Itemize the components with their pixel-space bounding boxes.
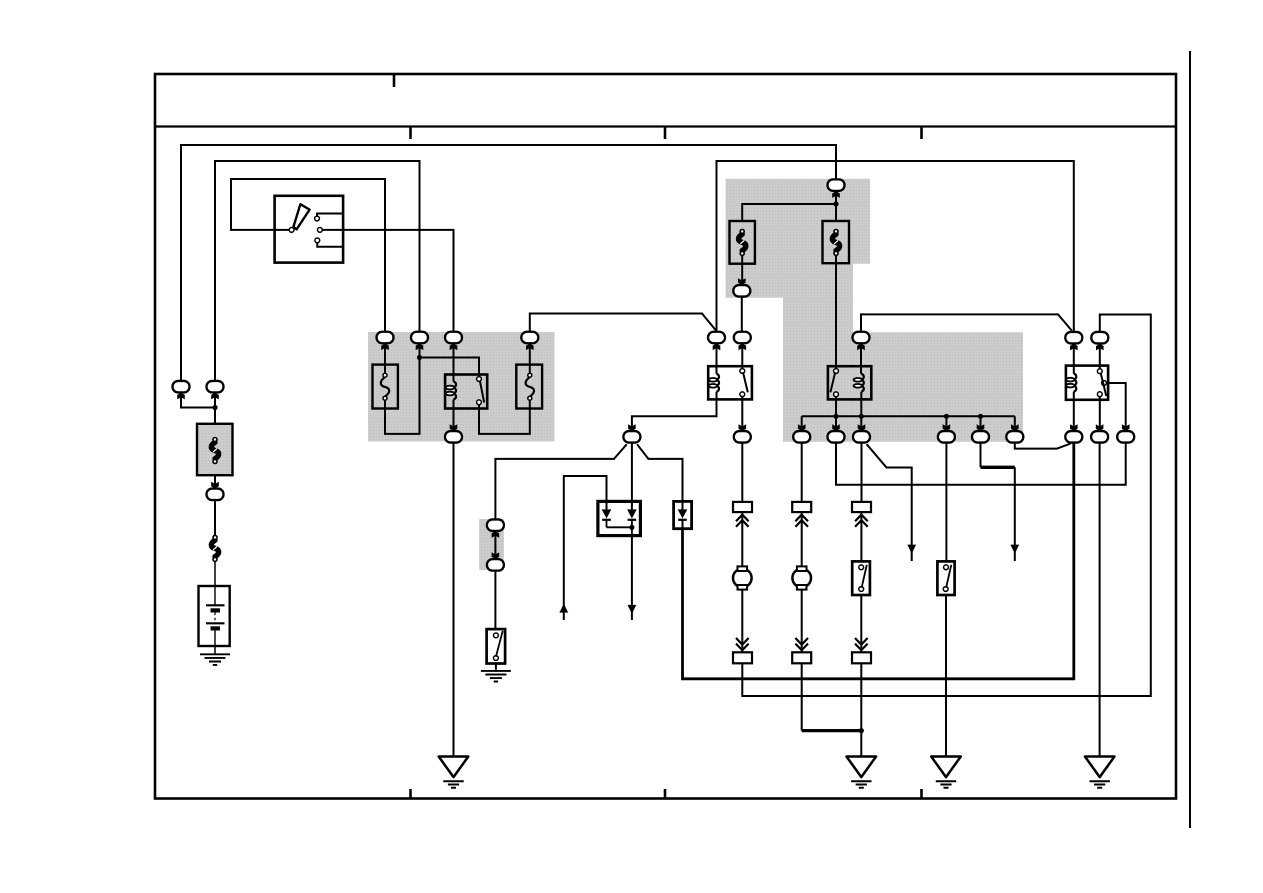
wire thick RH turn circuit loop: [683, 443, 1074, 679]
connector oval battery feed R: [207, 381, 224, 393]
ground triangle relay block: [439, 757, 469, 788]
diode 2 lead: [631, 501, 633, 509]
connector oval hazard out NO: [1091, 431, 1108, 443]
battery box: [199, 586, 230, 646]
connector oval LH lamp: [734, 431, 751, 443]
connector oval RH lamp: [793, 431, 810, 443]
tick bottom 3: [920, 789, 923, 799]
arrow up into hazard relay contact oval: [1096, 344, 1104, 351]
diode 1 lead: [606, 501, 608, 509]
relay contact top (left block): [477, 377, 482, 382]
wire oval to flasher contact: [741, 343, 743, 371]
diode 3 out lead: [682, 520, 684, 529]
connector rect RH bottom: [792, 652, 811, 663]
wire page arrow B drop: [1014, 467, 1016, 561]
wire flasher contact out: [741, 394, 743, 431]
wire side switch to lower connector: [860, 595, 862, 652]
dimmer switch blade: [496, 631, 503, 657]
ground battery: [200, 654, 230, 665]
shade: battery fusible link block: [197, 424, 233, 475]
battery top lead: [214, 586, 216, 605]
dimmer switch contact top: [494, 633, 499, 638]
wire bus right drop: [1014, 416, 1016, 431]
wire bus drop 980: [980, 416, 982, 431]
connector oval flasher L: [734, 332, 751, 344]
diode 3 cathode bar: [678, 519, 687, 521]
side switch blade: [862, 565, 867, 588]
wire feed oval to fusible links: [742, 191, 836, 222]
arrow up into battery oval L: [177, 393, 185, 400]
wire thick branch 980 to page arrow B: [981, 466, 1015, 469]
diode bus junction: [629, 525, 634, 530]
battery plate short 2: [211, 626, 221, 630]
wire oval to side connector: [861, 443, 863, 502]
wire ignition switch contact to relay block: [322, 230, 453, 332]
chevrons down side: [855, 638, 868, 650]
chevrons down LH: [736, 638, 749, 650]
arrow up into flasher B oval: [713, 343, 721, 350]
ignition switch contact 3: [315, 238, 320, 243]
connector oval bus 836: [828, 431, 845, 443]
hazard switch relay box: [828, 366, 871, 399]
rear switch blade: [946, 565, 951, 588]
diode 2 out lead: [631, 520, 633, 536]
connector oval fuse1: [377, 332, 394, 344]
wire switch contact stub bottom: [317, 240, 342, 246]
connector oval pair bottom: [487, 559, 504, 571]
battery bottom lead: [214, 628, 216, 646]
relay contact bottom (left block): [477, 400, 482, 405]
diode box (2 diodes): [598, 501, 641, 535]
rear switch contact top: [944, 565, 949, 570]
connector oval bus 946: [938, 431, 955, 443]
dimmer switch contact bottom: [494, 656, 499, 661]
connector oval bus 1014: [1006, 431, 1023, 443]
ground triangle side: [847, 757, 877, 788]
battery center dashed: [214, 613, 216, 622]
page arrow up LH diode feed: [559, 604, 568, 613]
diode 3: [678, 509, 688, 518]
connector oval pair top: [487, 519, 504, 531]
wire oval to relay coil: [453, 343, 455, 381]
ground triangle hazard: [1085, 757, 1115, 788]
page arrow down branch B: [1010, 545, 1019, 554]
connector oval below fusible link: [207, 489, 224, 501]
wire hazard relay coil out: [1073, 392, 1075, 431]
wire fuse1 bottom loop: [385, 358, 420, 434]
fusible link element left: [739, 229, 746, 255]
wire fusible link to oval: [214, 475, 216, 489]
connector rect side top: [852, 502, 871, 512]
connector oval hazard out coil: [1065, 431, 1082, 443]
arrow up into battery oval R: [211, 393, 219, 400]
side switch contact bottom: [859, 587, 864, 592]
wire rear switch to ground: [945, 595, 947, 757]
wire oval to hazard relay contact: [1099, 344, 1101, 372]
page arrow down diode common: [628, 605, 637, 614]
wire battery ovals join: [181, 392, 215, 424]
rear switch contact bottom: [943, 587, 948, 592]
wire main fuse to battery: [214, 560, 216, 586]
wire relay block out to flasher B: [530, 314, 717, 332]
dimmer switch box: [487, 629, 506, 663]
arrow up into flasher L oval: [739, 343, 747, 350]
arrow down into hazard coil out oval: [1070, 424, 1078, 431]
hazard switch blade: [830, 372, 835, 392]
ignition switch pivot contact: [289, 228, 294, 233]
page edge mark: [1189, 51, 1191, 828]
bulb RH turn signal: [792, 566, 811, 589]
ignition switch contact 1: [315, 216, 320, 221]
fuse 2 element: [526, 373, 534, 400]
junction dot bus 946: [944, 414, 949, 419]
ignition switch contact 2: [318, 228, 323, 233]
connector oval hazard out NC: [1117, 431, 1134, 443]
wire oval to hazard sw relay coil: [860, 343, 862, 373]
chevrons up LH: [736, 515, 749, 527]
arrow up into fuse1 oval: [381, 343, 389, 350]
wire hazard relay contact out: [1099, 394, 1101, 431]
diode 3 lead: [682, 501, 684, 509]
wire connector to RH bulb: [801, 512, 803, 567]
wire battery to ground: [214, 646, 216, 654]
wire right fusible link down to hazard switch: [835, 254, 837, 371]
junction dot bus 836: [833, 414, 838, 419]
tick top border: [393, 74, 396, 87]
junction dot bus 980: [978, 414, 983, 419]
wire TS switch oval right branch: [637, 444, 682, 501]
diode 2: [627, 509, 637, 518]
bulb LH turn signal: [733, 566, 752, 589]
diode 2 cathode bar: [628, 519, 637, 521]
wire oval to flasher feed: [741, 297, 743, 332]
wire bus left drop: [801, 416, 803, 431]
connector oval battery feed L: [173, 381, 190, 393]
hazard relay contact bottom: [1097, 392, 1102, 397]
rear switch box: [937, 561, 954, 595]
wire RH bulb ground drop: [801, 663, 803, 730]
frame divider line: [155, 125, 1176, 127]
wire oval to fuse1 relay block: [384, 343, 386, 375]
wire TS switch oval left branch: [495, 444, 626, 519]
wire battery+ to top feed: [181, 145, 836, 381]
fuse box 1: [373, 365, 398, 409]
wire dimmer switch to ground: [495, 664, 497, 670]
hazard relay coil: [1066, 374, 1076, 392]
wire hazard sw relay coil to bus: [860, 392, 862, 431]
arrow up into pair top oval: [492, 531, 500, 538]
wire oval to front RH connector: [801, 443, 803, 502]
wire junction to relay switch: [420, 358, 480, 380]
fusible link box right: [823, 221, 850, 263]
battery plate long 1: [206, 604, 225, 606]
wire flasher B up over to hazard relay coil connector: [717, 161, 1074, 332]
connector oval hazard coil in: [853, 332, 870, 344]
connector oval bus 980: [972, 431, 989, 443]
wire hazard relay NC contact out: [1106, 383, 1126, 431]
ignition switch box: [275, 196, 344, 263]
hazard flasher relay box: [1066, 366, 1108, 400]
diode common bus: [607, 526, 632, 528]
arrow down into bus oval 980: [977, 424, 985, 431]
relay box (left block): [445, 375, 487, 409]
arrow down into pair bottom oval: [492, 552, 500, 559]
arrow down into hazard NC oval: [1122, 424, 1130, 431]
wire flasher coil to TS switch oval: [632, 392, 717, 431]
fuse 1 element: [381, 373, 389, 400]
wire branch to page arrow A: [867, 444, 912, 561]
junction dot battery: [212, 405, 217, 410]
wire hazard coil connector diag feed: [861, 314, 1072, 332]
arrow down into oval below fusible link: [211, 482, 219, 489]
shade: relay block (left): [368, 332, 555, 442]
diode 1: [602, 509, 612, 518]
fusible link box left: [730, 221, 755, 264]
ground dimmer switch: [481, 671, 511, 682]
wire oval to junction relay block: [419, 343, 421, 357]
wire ignition switch pivot to fuse row: [231, 179, 385, 332]
battery plate long 2: [206, 622, 225, 624]
connector rect RH top: [792, 502, 811, 512]
hazard relay blade: [1101, 373, 1107, 397]
wire bus drop 946: [945, 416, 947, 431]
arrow up into relay coil oval: [450, 343, 458, 350]
connector rect LH top: [733, 502, 752, 512]
arrow up into junction oval: [416, 343, 424, 350]
connector oval fusible link out: [733, 285, 750, 297]
wire connector pair link: [494, 531, 496, 559]
wire thick RH bulb ground link: [802, 729, 862, 732]
chevrons up side: [855, 515, 868, 527]
diode 1 out lead: [606, 520, 608, 528]
hazard switch contact top: [834, 369, 839, 374]
wire relay block output to ground: [453, 443, 455, 757]
arrow up into hazard coil in oval: [857, 343, 865, 350]
wire TS switch oval center branch: [631, 443, 633, 501]
wire RH bulb to lower connector: [801, 589, 803, 652]
diode 1 cathode bar: [602, 519, 611, 521]
arrow down into TS switch oval: [628, 424, 636, 431]
connector oval flasher B: [708, 332, 725, 344]
junction dot bus 861: [859, 414, 864, 419]
wire LH lamp return loop to hazard relay connector: [742, 315, 1151, 697]
ground triangle rear: [931, 757, 961, 788]
wire LH diode feed with page arrow: [564, 476, 607, 620]
wire relay switch to fuse2 loop: [479, 398, 530, 434]
turn signal flasher box: [708, 366, 752, 399]
wire hazard sw relay contact to bus: [835, 394, 837, 431]
page arrow down branch A: [907, 545, 916, 554]
battery fusible link element: [211, 438, 218, 464]
connector oval TS switch feed: [623, 431, 640, 443]
arrow down into bus oval 946: [943, 424, 951, 431]
junction dot ground link: [859, 728, 864, 733]
tick bottom 2: [664, 789, 667, 799]
tick divider 3: [920, 127, 923, 140]
tick divider 2: [664, 127, 667, 140]
side switch box: [852, 561, 870, 595]
hazard relay contact mid: [1102, 381, 1107, 386]
arrow down into bus oval 836: [832, 424, 840, 431]
connector rect LH bottom: [733, 652, 752, 663]
relay blade (left block): [480, 381, 484, 403]
battery fusible link box: [197, 424, 233, 475]
wire connector to side switch: [860, 512, 862, 561]
chevrons up RH: [795, 515, 808, 527]
wire oval to main fuse: [214, 500, 216, 537]
arrow down into LH lamp oval: [739, 424, 747, 431]
connector oval relay block out: [445, 431, 462, 443]
wire relay coil to output oval: [453, 400, 455, 432]
main fuse element: [211, 535, 218, 561]
hazard relay contact top: [1097, 369, 1102, 374]
junction dot relay block: [417, 355, 422, 360]
battery plate short 1: [211, 608, 221, 612]
arrow down into relay block out oval: [450, 424, 458, 431]
flasher contact top: [740, 369, 745, 374]
connector oval bus 861: [853, 431, 870, 443]
arrow up into hazard relay coil oval: [1070, 344, 1078, 351]
arrow down into bus oval 861: [858, 424, 866, 431]
fusible link element right: [832, 229, 839, 255]
fuse box 2: [516, 365, 542, 409]
wire loop oval836 to oval1125: [836, 443, 1126, 485]
connector oval junction: [411, 332, 428, 344]
wire hazard out to ground: [1099, 443, 1101, 757]
wire left fusible link to oval: [741, 254, 743, 285]
wire oval to rear switch: [945, 443, 947, 562]
shade: center junction/relay block (T shape): [726, 179, 1023, 442]
tick bottom 1: [409, 789, 412, 799]
wire connector to LH bulb: [741, 512, 743, 567]
connector oval hazard relay coil: [1065, 332, 1082, 344]
connector rect side bottom: [852, 652, 871, 663]
wire LH bulb to lower connector: [741, 589, 743, 652]
flasher contact bottom: [740, 392, 745, 397]
side switch contact top: [859, 565, 864, 570]
arrow down into RH lamp oval: [798, 424, 806, 431]
connector oval top feed: [828, 179, 845, 191]
arrow down into hazard NO oval: [1096, 424, 1104, 431]
tick divider 1: [409, 127, 412, 140]
junction dot feed: [833, 201, 838, 206]
wire branch drop 980: [980, 443, 982, 468]
wire oval to hazard relay coil: [1073, 344, 1075, 374]
arrow down into bus oval 1014: [1011, 424, 1019, 431]
wire oval1014 diag to oval1073: [1015, 443, 1071, 449]
hazard switch coil: [854, 374, 864, 392]
connector oval fuse2: [521, 332, 538, 344]
wire fuse2 top to oval: [529, 343, 531, 375]
wire output bus: [802, 415, 1015, 417]
frame border: [155, 74, 1176, 799]
wire switch contact stub top: [317, 214, 343, 219]
flasher blade: [743, 372, 748, 392]
relay coil (left block): [446, 382, 456, 400]
arrow up into fuse2 oval: [526, 343, 534, 350]
wire oval to front LH connector: [741, 443, 743, 502]
hazard switch contact bottom: [834, 392, 839, 397]
wire connector pair to dimmer switch: [494, 571, 496, 630]
chevrons down RH: [795, 638, 808, 650]
connector oval relay coil: [445, 332, 462, 344]
wire diode common output: [631, 536, 633, 620]
connector oval hazard relay contact: [1091, 332, 1108, 344]
wire lower connector to ground: [860, 663, 862, 756]
wire battery to ignition fuse: [215, 161, 420, 381]
shade: connector pair strip: [479, 519, 504, 570]
arrow down into fusible out oval: [738, 278, 746, 285]
wire oval to flasher coil: [716, 343, 718, 373]
arrow up into top feed oval: [832, 191, 840, 198]
ignition switch lever: [293, 204, 309, 229]
flasher coil: [709, 374, 719, 392]
diode box small: [674, 501, 692, 528]
